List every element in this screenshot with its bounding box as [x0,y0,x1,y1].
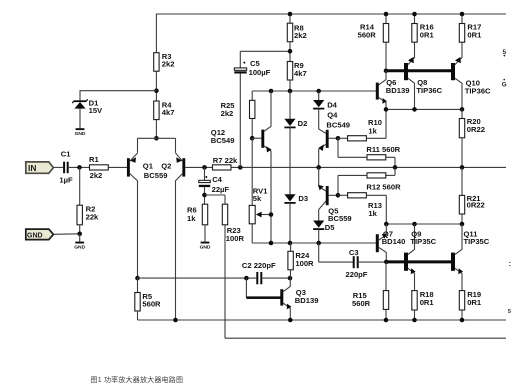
svg-text:IN: IN [28,163,36,173]
ground below D1 [76,128,85,130]
wire feedback to C2 [138,277,257,279]
wire Q9/Q11 collector line [386,223,462,225]
resistor R23 [222,204,227,225]
node Q11 collector/R21 [460,222,465,227]
wire R19 to bottom rail [461,310,463,320]
transistor Q3 BD139 [280,289,283,305]
resistor R11 [367,155,386,160]
wire R9 to bias rail [289,80,291,91]
svg-text:图1 功率放大器放大器电路图: 图1 功率放大器放大器电路图 [91,375,184,384]
svg-text:0R1: 0R1 [467,298,482,307]
svg-text:R7 22k: R7 22k [213,156,238,165]
wire GND tag to node [53,233,79,236]
svg-text:0R22: 0R22 [467,125,485,134]
node D5/C3/rail [316,241,321,246]
zener diode D1 [74,102,85,109]
wire D4 to Q4 collector [318,109,320,129]
svg-text:4k7: 4k7 [294,69,307,78]
node Q9 collector [412,222,417,227]
resistor R14 [383,24,388,43]
node R3/R4/D1 [154,88,159,93]
wire R3 to node [155,71,157,101]
svg-text:0R1: 0R1 [467,30,482,39]
resistor R10 [338,137,348,139]
node Q12 emitter/rail [269,241,274,246]
svg-text:GND: GND [27,232,43,239]
svg-text:R12 560R: R12 560R [366,183,401,192]
wire IN to C1 [53,166,63,168]
svg-text:2k2: 2k2 [90,171,103,180]
svg-text:BC559: BC559 [328,214,352,223]
node Q5 base/R13/R12 [336,193,341,198]
node R8/top rail [288,12,293,17]
resistor R7 [213,165,232,170]
ground below R2 [75,242,84,244]
svg-text:2k2: 2k2 [162,60,175,69]
resistor R8 [287,23,292,42]
diode D3 [284,194,295,201]
wire C1 to node [68,166,90,168]
node C2 left/Q3 base branch [244,276,249,281]
node R20/R21/output [460,165,465,170]
svg-text:1k: 1k [368,209,377,218]
transistor Q1 BC559 [127,158,130,176]
node R11/R12/output [393,165,398,170]
resistor R1 [90,165,109,170]
node R13/Q7 emitter [384,222,389,227]
wire top supply rail [156,13,506,15]
node Q2 collector/rail [173,318,178,323]
node Q8 collector [412,107,417,112]
svg-text:560R: 560R [142,300,161,309]
wire Q4 base [329,137,338,139]
node C4/R6/R23 [202,193,207,198]
wire C3 to Q9/Q11 base line [358,261,387,263]
svg-text:TIP36C: TIP36C [465,87,491,96]
svg-text:0R1: 0R1 [420,298,435,307]
wire R25 to Q12 base [251,119,253,139]
capacitor C2 [256,272,258,284]
wire R6 to ground [204,225,206,242]
svg-text:C3: C3 [349,248,359,257]
svg-text:GND: GND [75,131,86,137]
node R2 ground [77,232,82,237]
node bias/D4 [316,89,321,94]
wire node to ground symbol [79,234,81,242]
wire R3 top feed [155,14,157,53]
wire R10 to Q6 emitter node [366,137,386,139]
diode D4 [318,91,320,100]
svg-text:TIP35C: TIP35C [464,237,490,246]
svg-text:15V: 15V [89,106,103,115]
potentiometer RV1 [251,138,253,205]
wire bottom negative rail [225,337,506,339]
wire C4 to R6 node [204,187,206,204]
wire R1 to Q1 base [108,166,127,168]
wire Q8/Q10 collector line [386,108,462,110]
wire RV1 bottom to rail [251,224,253,243]
wire C5 top to R8/R9 node [240,50,290,52]
capacitor C4 electrolytic [204,167,206,180]
svg-text:220pF: 220pF [346,270,368,279]
svg-text:560R: 560R [352,299,371,308]
diode D2 [289,91,291,119]
wire R12 branch [394,167,396,175]
node Q10 collector/R20 [460,107,465,112]
node R25/Q12/RV1 [250,136,255,141]
resistor R20 [461,109,463,118]
svg-text:560R: 560R [358,31,377,40]
transistor Q9 TIP35C [404,253,408,271]
node D3/R24/rail [288,241,293,246]
wire R21 to collector line [461,214,463,224]
svg-text:1k: 1k [368,126,377,135]
resistor R18 [412,291,417,310]
wire Q3 base branch [245,278,247,298]
svg-text:BD139: BD139 [295,296,319,305]
wire C5 bottom to output rail [239,74,241,168]
node Q4/Q5 emitters on output rail [316,165,321,170]
svg-text:TIP36C: TIP36C [416,86,442,95]
transistor Q2 BC559 [182,158,185,176]
transistor Q6 BD139 [376,83,379,100]
svg-text:D5: D5 [325,223,335,232]
wire Q5 base [329,194,338,196]
wire R16 top feed [414,14,416,24]
wire bias rail lower [252,242,376,244]
wire node to R2 [79,167,81,205]
svg-text:4k7: 4k7 [162,108,175,117]
resistor R6 [202,204,207,225]
wire bias rail upper [252,90,376,92]
wire Q5 collector to D5 [318,210,320,221]
input tag IN [26,162,54,173]
svg-text:C5: C5 [250,59,260,68]
capacitor C5 electrolytic [239,51,241,68]
svg-text:BC559: BC559 [144,171,168,180]
svg-text:100R: 100R [295,259,314,268]
svg-text:TIP35C: TIP35C [410,237,436,246]
svg-text:R1: R1 [89,155,99,164]
node R17/top rail [460,12,465,17]
transistor Q4 BC549 [326,130,329,148]
wire R4 to diff-pair emitters [155,120,157,139]
svg-text:22µF: 22µF [212,185,230,194]
resistor R9 [287,62,292,81]
node R8/R9/C5 [288,49,293,54]
svg-text:1µF: 1µF [59,176,73,185]
wire R18 to bottom rail [414,310,416,320]
svg-text:GND: GND [200,244,211,250]
wire D3 to lower bias rail [289,203,291,243]
resistor R19 [459,291,464,310]
resistor R25 [250,100,255,118]
wire R20 to output rail [461,138,463,168]
resistor R15 [385,262,387,291]
resistor R21 [461,167,463,195]
svg-text:GND: GND [74,245,85,251]
node input/R2 [77,165,82,170]
wire D1 node horizontal [80,90,156,92]
svg-text:D3: D3 [298,194,308,203]
wire D5 to lower bias rail [318,229,320,243]
wire D1 anode drop [79,90,81,101]
wire output rail [205,166,507,168]
node R16/top rail [412,12,417,17]
capacitor C3 [353,256,355,268]
svg-text:C4: C4 [212,175,222,184]
transistor Q11 TIP35C [451,253,455,271]
transistor Q12 BC549 [261,130,264,148]
transistor Q5 BC559 [326,186,329,205]
resistor R3 [154,53,159,71]
svg-text:G: G [502,82,507,89]
svg-text:100R: 100R [226,234,245,243]
wire emitter rail [138,137,176,139]
wire R14 to Q6 collector node [385,42,387,71]
node Q6 collector/heavy line [384,69,389,74]
svg-text::: : [509,259,512,268]
svg-text:D2: D2 [298,119,308,128]
wire Q12 base [252,137,262,139]
wire Q3 base thick [246,296,280,299]
svg-text:1k: 1k [187,214,196,223]
resistor R16 [412,24,417,43]
transistor Q8 TIP36C [404,63,408,80]
resistor R4 [154,101,159,120]
wire R11 to output node [386,156,395,158]
wire heavy Q8/Q10 base line [386,69,453,72]
svg-text:Q2: Q2 [161,161,171,170]
wire R14 top feed [385,14,387,24]
wire D2 to D3 [289,128,291,195]
ground below R6 [201,242,210,244]
node RV1 wiper/Q12 emitter [269,212,274,217]
wire R5 to bottom rail [137,311,139,320]
svg-text:0R1: 0R1 [420,30,435,39]
diode D5 [313,221,324,228]
wire R23 to bottom rail [224,225,226,338]
svg-text:C2 220pF: C2 220pF [242,261,276,270]
svg-text:5k: 5k [253,194,262,203]
resistor R5 [137,278,139,292]
svg-text:D4: D4 [327,100,337,109]
wire node to R23 [205,194,226,196]
svg-text:100µF: 100µF [249,68,271,77]
svg-text:C1: C1 [61,149,71,158]
node Q7 collector/heavy line [384,260,389,265]
wire R17 top feed [461,14,463,24]
svg-text:Q4: Q4 [327,111,338,120]
wire R11 branch [337,138,339,157]
node Q2 base / C4 [202,165,207,170]
node Q1 collector/R5/C2 [135,276,140,281]
svg-text:R11 560R: R11 560R [366,145,400,154]
capacitor C1 [63,162,65,174]
node R7/C5/output [238,165,243,170]
transistor Q7 BD140 [376,234,379,252]
wire Q2 base [185,166,204,168]
svg-text:2k2: 2k2 [294,31,307,40]
node bias/Q12-collector [269,89,274,94]
resistor R2 [77,205,82,225]
wire C2 to R24/Q3 collector node [261,277,290,279]
node diff-pair emitter rail [154,136,159,141]
wire C3 branch [318,243,320,262]
wire bias rail to R25 [251,91,253,100]
svg-text:22k: 22k [86,212,99,221]
svg-text:Q1: Q1 [143,161,154,170]
wire R8 top feed [289,14,291,23]
transistor Q10 TIP36C [451,63,455,80]
wire bottom rail (ground/output return) [138,319,507,321]
node R14/top rail [384,12,389,17]
svg-text:BD140: BD140 [382,237,406,246]
wire R8 to R9 [289,42,291,62]
wire R2 to ground node [79,225,81,234]
wire R13 to Q7 emitter node [366,194,386,196]
ground tag GND [26,229,54,240]
node R24/C2/Q3 collector [288,276,293,281]
wire R15 to bottom rail [385,309,387,320]
resistor R13 [338,194,348,196]
RV1 wiper arrow [261,214,271,216]
svg-text:2k2: 2k2 [221,109,234,118]
node Q6 emitter [384,107,389,112]
svg-text:BC549: BC549 [326,120,350,129]
svg-text:BD139: BD139 [386,86,410,95]
node Q4 base/R10/R11 [336,136,341,141]
node Q3 emitter/rail [288,318,293,323]
wire D1 to ground [79,109,81,129]
svg-text:BC549: BC549 [211,136,235,145]
resistor R12 [367,173,386,178]
svg-text:0R22: 0R22 [467,201,485,210]
wire heavy Q9/Q11 base line [386,260,452,263]
node bias/R9/D2 [288,89,293,94]
wire R24 to node [289,270,291,278]
resistor R24 [290,243,292,251]
resistor R17 [459,24,464,43]
